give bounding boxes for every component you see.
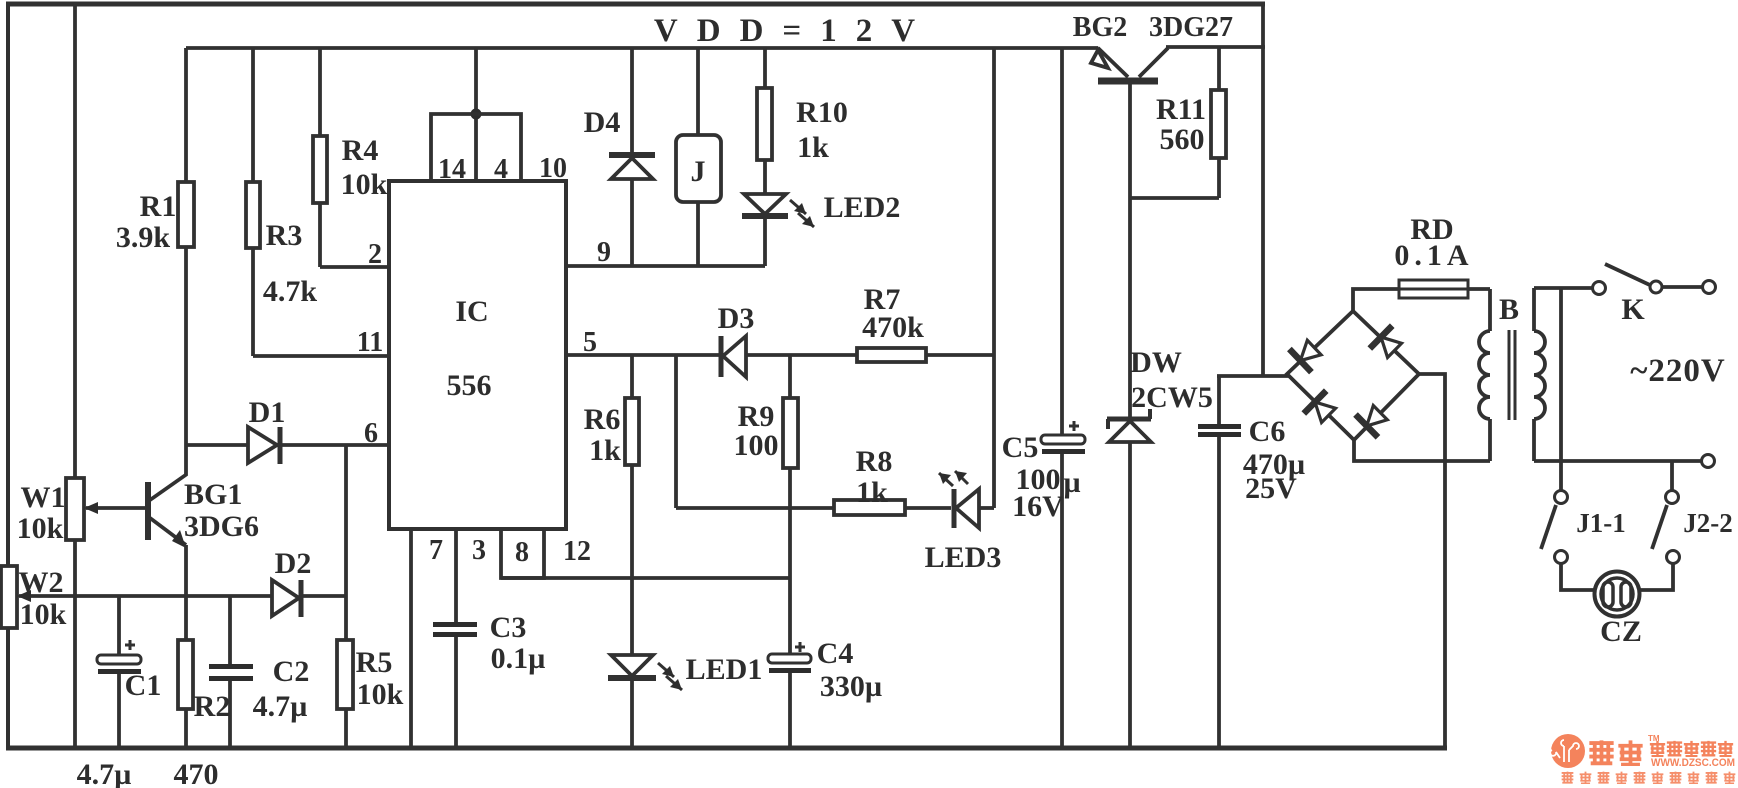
svg-text:8: 8 [515,537,529,568]
wire: top raw-DC border rail [6,2,1265,7]
svg-text:4.7µ: 4.7µ [253,690,308,723]
wire: pin 7 to ground [409,529,413,748]
svg-text:6: 6 [364,418,378,449]
svg-text:3DG27: 3DG27 [1149,12,1233,43]
wire: pin 9 row [566,264,765,268]
svg-text:LED2: LED2 [824,191,901,224]
potentiometer W2 (in left border) [1,566,17,628]
resistor R9 [788,355,792,398]
wire: secondary top line to switch K [1534,286,1592,290]
svg-text:J: J [691,155,706,188]
svg-text:100: 100 [734,429,779,462]
watermark slogan characters [1562,772,1736,784]
capacitor C4 (electrolytic) [768,654,811,663]
svg-text:R11: R11 [1156,93,1206,126]
svg-text:R3: R3 [266,219,303,252]
capacitor C5 (electrolytic) [1060,48,1064,436]
svg-text:12: 12 [563,536,591,567]
capacitor C2 [228,596,232,665]
wire: J1-1 feed from top line [1559,288,1563,490]
svg-text:D1: D1 [249,396,286,429]
resistor R2 [178,640,193,709]
svg-text:10k: 10k [341,168,388,201]
svg-text:10: 10 [539,153,567,184]
resistor R4 [318,48,322,136]
wire: bridge top to fuse [1353,289,1399,311]
svg-text:R8: R8 [856,445,893,478]
svg-text:25V: 25V [1245,472,1297,505]
svg-text:556: 556 [447,369,492,402]
resistor R8 [834,500,905,515]
svg-text:1k: 1k [797,131,829,164]
wire: BG2 base down to DW [1128,84,1132,417]
potentiometer W1 [66,478,84,540]
svg-text:IC: IC [455,295,488,328]
svg-text:R2: R2 [194,690,231,723]
svg-text:R4: R4 [342,134,379,167]
svg-text:µ: µ [1063,466,1080,499]
wire: D2/D1/R5 junction vertical x=346 [344,445,348,640]
wire: pin bracket 14-4-10 [431,114,521,181]
svg-text:470: 470 [174,758,219,788]
svg-text:C2: C2 [273,655,310,688]
diode D2 [272,580,299,616]
wire: pin 5 row [566,353,721,357]
svg-text:4.7k: 4.7k [263,275,318,308]
bridge diode lower-left [1304,391,1340,427]
svg-text:1k: 1k [589,434,621,467]
svg-text:LED3: LED3 [925,541,1002,574]
switch J1-1 [1555,491,1568,504]
wire: ground rail [6,746,1447,751]
transformer B core [1508,330,1511,420]
wire: right border down to C6/bridge junction [1261,4,1265,376]
svg-text:J2-2: J2-2 [1683,508,1733,538]
wire: W1 feed from top border [73,4,77,480]
wire: pin2 row [320,265,389,269]
watermark site name characters [1650,741,1665,756]
svg-text:10k: 10k [20,598,67,631]
wire: bridge bottom to transformer primary bottom [1354,440,1490,461]
svg-text:VDD=12V: VDD=12V [654,13,934,49]
svg-text:16V: 16V [1012,490,1064,523]
transformer B secondary [1532,288,1536,331]
fuse RD [1399,280,1468,298]
capacitor C6 [1217,376,1221,426]
svg-text:D4: D4 [584,106,621,139]
wire: pin11 row [253,354,389,358]
watermark logo circle [1551,734,1585,768]
WATERMARK [1550,734,1735,783]
svg-text:14: 14 [438,154,466,185]
svg-text:R1: R1 [140,190,177,223]
svg-text:0.1A: 0.1A [1394,239,1473,272]
wire: bridge right corner to ground [1419,374,1445,748]
resistor R6 [630,355,634,398]
transformer B primary [1488,289,1492,331]
svg-text:LED1: LED1 [686,653,763,686]
resistor R1 [184,48,188,182]
resistor R3 [251,48,255,182]
wire: W1 wiper to BG1 base [86,506,148,510]
wire: W2 wiper row to D2 anode [19,594,272,598]
svg-text:K: K [1621,293,1645,326]
svg-text:2: 2 [368,239,382,270]
svg-text:C3: C3 [490,611,527,644]
svg-text:DW: DW [1130,346,1182,379]
wire: R11 bottom to BG2 base [1130,196,1219,200]
bridge diode upper-right [1370,326,1406,362]
socket CZ [1595,572,1640,617]
wire: pin6 row from BG1 collector to IC [186,443,248,447]
resistor R7 [857,348,926,362]
svg-text:470k: 470k [862,311,924,344]
LED LED2 [744,194,786,214]
wire: BG2 collector line to right border [1166,45,1265,49]
LED LED1 [611,655,653,676]
relay J [696,48,700,135]
watermark brand characters [1589,734,1733,765]
svg-text:3DG6: 3DG6 [184,510,259,543]
svg-text:C4: C4 [817,637,854,670]
svg-text:7: 7 [429,535,443,566]
svg-text:4.7µ: 4.7µ [77,758,132,788]
diode D3 [719,336,724,377]
op-amp U1: IC 556 box [389,181,566,529]
svg-text:R5: R5 [356,646,393,679]
capacitor C3 [433,622,477,627]
svg-text:3: 3 [472,535,486,566]
resistor R10 [763,48,767,88]
svg-text:0.1µ: 0.1µ [491,642,546,675]
diode D4 (across relay) [630,48,634,152]
wire: pin 3 stub [454,529,458,624]
switch J2-2 [1670,461,1674,490]
wire: BG1 emitter down through wiper row to R2 [184,545,188,640]
wire: left border (feeds W2 top) [6,4,10,566]
wire: secondary bottom AC line [1534,459,1701,463]
svg-text:11: 11 [357,327,383,358]
svg-text:560: 560 [1160,123,1205,156]
svg-text:BG2: BG2 [1073,12,1127,43]
svg-text:W2: W2 [19,566,64,599]
wire: left border below W2 to ground [6,628,10,748]
transistor BG2 [1098,48,1128,77]
svg-text:W1: W1 [21,481,66,514]
svg-text:BG1: BG1 [184,478,242,511]
svg-text:C1: C1 [125,669,162,702]
bridge diode upper-left [1289,336,1325,372]
svg-text:R10: R10 [796,96,848,129]
svg-text:2CW5: 2CW5 [1131,381,1213,414]
LED LED3 [952,489,957,528]
svg-text:C6: C6 [1249,415,1286,448]
svg-text:9: 9 [597,237,611,268]
svg-text:B: B [1499,293,1519,326]
wire: pins 8/12 bracket to row y=578 [501,529,544,578]
svg-text:5: 5 [583,327,597,358]
svg-text:J1-1: J1-1 [1576,508,1626,538]
bridge rectifier diamond [1287,311,1419,440]
switch K [1593,282,1606,295]
wire: R8 row [676,506,834,510]
wire: pins 14/4/10 feed from VDD rail [474,48,478,181]
svg-text:CZ: CZ [1600,615,1642,648]
wire: VDD rail y=48 [186,46,1098,50]
svg-text:~220V: ~220V [1630,353,1726,389]
zener DW [1107,417,1151,422]
wire: C6 top row [1217,374,1289,378]
resistor R11 [1217,47,1221,90]
svg-text:R6: R6 [584,403,621,436]
svg-text:D3: D3 [718,302,755,335]
wire: pin5 row to R8 row vertical x=676 [674,355,678,508]
resistor R5 [337,640,353,709]
svg-text:C5: C5 [1002,431,1039,464]
wire: VDD to R7/LED3 vertical x=994 [992,48,996,508]
svg-text:330µ: 330µ [820,670,882,703]
svg-text:10k: 10k [357,678,404,711]
svg-text:4: 4 [494,154,508,185]
diode D1 [248,427,277,463]
bridge diode lower-right [1356,401,1392,437]
svg-text:D2: D2 [275,547,312,580]
svg-text:3.9k: 3.9k [116,221,171,254]
transistor BG1 [145,482,151,540]
svg-text:1k: 1k [856,476,888,509]
svg-text:10k: 10k [17,512,64,545]
svg-text:WWW.DZSC.COM: WWW.DZSC.COM [1651,757,1735,769]
capacitor C1 (electrolytic) [117,596,121,655]
